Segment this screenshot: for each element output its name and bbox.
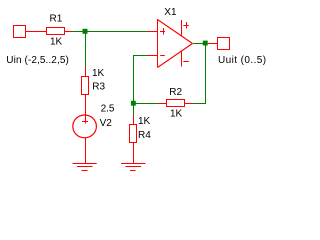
svg-text:1K: 1K [50,37,63,48]
resistor R4 [130,115,137,164]
wire op-amp output to node B [193,43,203,45]
terminal input port [14,26,26,38]
svg-text:1K: 1K [92,68,105,79]
wire node C down to R4 [133,106,135,116]
svg-text:Uuit (0..5): Uuit (0..5) [218,55,266,66]
svg-text:V2: V2 [100,118,113,129]
svg-text:X1: X1 [164,7,177,18]
wire node A to op-amp + input [73,31,148,33]
node C junction [131,101,136,106]
wire node C to R2 [136,103,159,105]
voltage source V2 [73,94,97,164]
svg-text:1K: 1K [170,109,183,120]
svg-text:R1: R1 [50,14,63,25]
node A junction [83,29,88,34]
svg-text:R2: R2 [169,87,182,98]
ground under V2 [73,164,97,171]
svg-text:R4: R4 [138,130,151,141]
op-amp X1 [147,19,193,68]
wire op-amp - input to node C [134,56,148,102]
node B junction [203,41,208,46]
ground under R4 [121,164,146,171]
svg-text:2.5: 2.5 [101,104,115,115]
wire node B down to R2 [193,45,206,104]
wire node B to output terminal [208,43,218,45]
terminal output port [218,38,230,50]
resistor R1 [47,28,74,35]
wire node A down to R3 [85,32,87,68]
svg-text:1K: 1K [138,116,151,127]
wire terminal to R1 [26,31,47,33]
resistor R2 [158,100,193,107]
svg-text:R3: R3 [92,82,105,93]
svg-text:Uin (-2,5..2,5): Uin (-2,5..2,5) [6,55,69,66]
resistor R3 [82,67,89,95]
